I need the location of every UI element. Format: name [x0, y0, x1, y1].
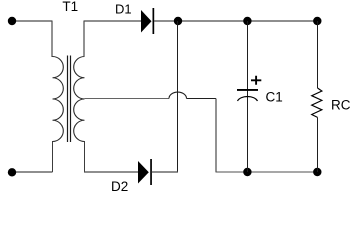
node terminal bottom-left [8, 168, 16, 176]
svg-text:T1: T1 [62, 0, 78, 14]
svg-text:RC: RC [331, 98, 351, 113]
diode D2 [138, 161, 149, 184]
wire center tap right segment [187, 98, 217, 100]
resistor RC zigzag [312, 88, 322, 117]
wire center tap down to bottom rail [215, 99, 217, 173]
transformer T1 core [68, 56, 71, 143]
node junction D1 output [174, 17, 182, 25]
capacitor C1 curved plate [238, 97, 258, 101]
transformer T1 primary winding [53, 57, 64, 142]
wire secondary top lead up [83, 21, 85, 58]
diode D1 [141, 10, 152, 33]
node junction RC bottom [313, 168, 321, 176]
transformer T1 secondary winding [74, 57, 85, 142]
capacitor C1 plus sign [251, 76, 261, 85]
wire secondary top to D1 anode [84, 20, 141, 22]
svg-text:C1: C1 [266, 89, 283, 104]
wire secondary bottom lead down [84, 141, 86, 172]
wire primary top: terminal to transformer [12, 20, 52, 22]
node junction C1 bottom [243, 168, 251, 176]
node junction RC top [313, 17, 321, 25]
wire hop over cathode bus [169, 92, 187, 98]
wire RC bottom [317, 117, 319, 172]
wire primary top lead down [51, 21, 53, 58]
wire secondary bottom to D2 anode [84, 171, 138, 173]
node terminal top-left [8, 17, 16, 25]
wire RC top [317, 21, 319, 88]
node junction C1 top [243, 17, 251, 25]
wire center tap left segment [85, 98, 170, 100]
capacitor C1 top plate [237, 89, 258, 91]
wire cathode bus down (D1 junction to D2 cathode) [177, 21, 179, 172]
wire primary bottom lead down [52, 141, 54, 172]
svg-text:D2: D2 [111, 179, 128, 194]
wire C1 vertical [247, 21, 249, 172]
svg-text:D1: D1 [115, 2, 132, 17]
wire bottom rail [216, 171, 318, 173]
diode D1 cathode bar [153, 8, 155, 34]
wire D1 cathode to top rail [154, 20, 317, 22]
wire D2 cathode to cathode bus [152, 171, 179, 173]
diode D2 cathode bar [150, 159, 152, 185]
wire primary bottom: transformer to terminal [12, 171, 53, 173]
